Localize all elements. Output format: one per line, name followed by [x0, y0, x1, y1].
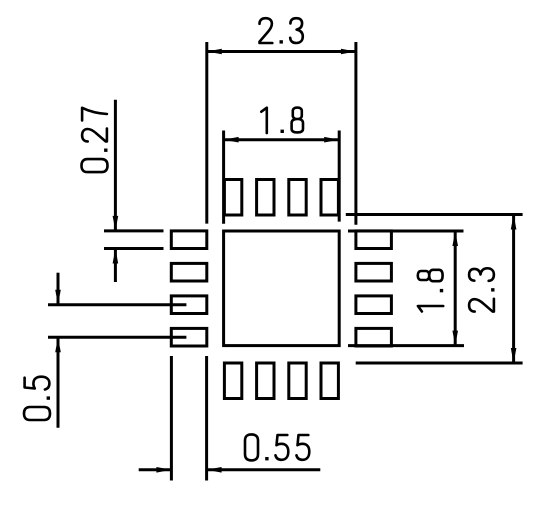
thermal pad (central 1.8mm square): [224, 231, 340, 346]
dimension 0.5: label text: [24, 377, 50, 420]
dimension 0.55: arrowhead left-pointing: [207, 467, 222, 473]
dimension 2.3 top: arrowhead right: [341, 49, 356, 55]
pad top 4: [321, 180, 338, 216]
dimension 0.27: leader line below: [114, 249, 117, 283]
dimension 0.55: leader line left: [139, 468, 172, 471]
dimension 1.8 top: label text: [261, 108, 303, 133]
dimension 2.3 top: extension line left: [205, 42, 208, 224]
pad right 2: [356, 263, 392, 281]
dimension 2.3 right: dimension line: [512, 215, 515, 364]
pad bottom 4: [321, 363, 338, 399]
dimension 2.3 top: arrowhead left: [207, 49, 222, 55]
pad top 1: [224, 180, 241, 216]
pad right 1: [356, 231, 392, 249]
dimension 1.8 right: label text: [418, 270, 443, 312]
dimension 2.3 top: extension line right: [354, 42, 357, 225]
dimension 1.8 right: extension line upper: [348, 230, 464, 233]
dimension 0.55: label text: [245, 434, 309, 460]
dimension 0.27: extension line upper: [104, 229, 164, 232]
dimension 1.8 top: arrowhead left: [224, 137, 239, 143]
dimension 1.8 top: dimension line: [224, 138, 340, 141]
dimension 2.3 right: label text: [469, 268, 494, 311]
dimension 1.8 right: arrowhead up: [452, 231, 458, 246]
dimension 0.27: extension line lower: [104, 247, 164, 250]
dimension 1.8 right: dimension line: [454, 231, 457, 346]
dimension 1.8 top: arrowhead right: [324, 137, 339, 143]
dimension 1.8 right: arrowhead down: [452, 331, 458, 346]
pad right 4: [356, 328, 392, 346]
pad bottom 1: [224, 363, 241, 399]
dimension 0.27: arrowhead down: [113, 216, 119, 231]
dimension 0.5: extension line upper (pad 3 centerline): [48, 303, 186, 306]
pad right 3: [356, 296, 392, 314]
dimension 2.3 right: arrowhead up: [511, 215, 517, 230]
pad top 2: [257, 180, 274, 216]
pad bottom 2: [257, 363, 274, 399]
dimension 2.3 top: label text: [260, 18, 303, 43]
dimension 0.5: leader line below: [57, 337, 60, 428]
dimension 0.55: leader line right: [207, 468, 321, 471]
dimension 0.55: extension line right: [205, 356, 208, 481]
dimension 1.8 right: extension line lower: [348, 344, 464, 347]
dimension 1.8 top: extension line left: [222, 131, 225, 224]
dimension 0.27: arrowhead up: [113, 249, 119, 264]
dimension 2.3 right: extension line upper: [346, 213, 523, 216]
dimension 2.3 right: arrowhead down: [511, 348, 517, 363]
dimension 0.5: leader line above: [57, 273, 60, 305]
dimension 0.5: extension line lower (pad 4 centerline): [48, 336, 186, 339]
dimension 0.55: arrowhead right-pointing: [156, 467, 171, 473]
pad left 1: [171, 231, 207, 249]
pad bottom 3: [289, 363, 306, 399]
pad left 3: [171, 296, 207, 314]
dimension 0.5: arrowhead up: [55, 337, 61, 352]
pad left 4: [171, 328, 207, 346]
dimension 0.27: leader line above: [114, 100, 117, 231]
dimension 0.27: label text: [82, 108, 108, 172]
dimension 2.3 top: dimension line: [207, 50, 356, 53]
dimension 0.5: arrowhead down: [55, 290, 61, 305]
dimension 2.3 right: extension line lower: [356, 362, 523, 365]
pad left 2: [171, 263, 207, 281]
dimension 0.55: extension line left: [170, 356, 173, 481]
pad top 3: [289, 180, 306, 216]
dimension 1.8 top: extension line right: [338, 131, 341, 222]
